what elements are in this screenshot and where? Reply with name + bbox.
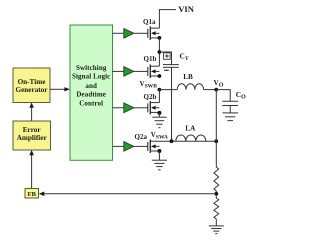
wire VO rail down to resistor R1 (215, 90, 217, 167)
svg-text:VIN: VIN (178, 4, 195, 14)
wire On-Time Generator to logic block (50, 88, 65, 90)
svg-text:Control: Control (79, 99, 103, 107)
resistor R1 (214, 167, 219, 191)
svg-text:and: and (85, 82, 97, 90)
svg-text:CT: CT (180, 51, 189, 62)
transistor Q1a (148, 26, 160, 40)
wire FB box up to Error Amplifier (31, 155, 33, 189)
node junction dot Q1a source (158, 36, 162, 40)
wire FB feedback line (44, 193, 216, 195)
svg-text:Q2b: Q2b (144, 93, 157, 101)
svg-text:LA: LA (185, 125, 196, 133)
buffer driver A1 (113, 32, 124, 34)
wire VSWB to inductor LB (159, 89, 177, 91)
buffer driver A2 (113, 70, 124, 72)
svg-text:Deadtime: Deadtime (76, 91, 106, 99)
node junction dot LA right (214, 139, 218, 143)
svg-text:VSWA: VSWA (151, 131, 168, 141)
svg-text:Switching: Switching (76, 64, 107, 72)
buffer driver A4 (113, 145, 124, 147)
buffer driver A3 (113, 107, 124, 109)
wire Q2a source to ground (158, 151, 160, 160)
wire driver A1 to gate (134, 32, 148, 34)
node junction dot CT tap (158, 50, 162, 54)
node VO junction dot (214, 88, 218, 92)
block On-Time Generator (13, 68, 50, 103)
block FB pin (25, 189, 39, 199)
transistor Q2a (148, 140, 160, 154)
capacitor CT (159, 52, 178, 141)
node junction dot Q2a source (157, 149, 161, 153)
wire R2 to ground (215, 219, 217, 226)
svg-text:Q2a: Q2a (135, 133, 148, 141)
block Switching Signal Logic and Deadtime Control (70, 25, 113, 160)
block Error Amplifier (13, 121, 51, 150)
inductor LB (177, 84, 203, 90)
svg-text:VO: VO (214, 79, 224, 89)
node junction dot Q1b source (158, 74, 162, 78)
svg-text:Amplifier: Amplifier (17, 134, 48, 142)
polarity minus of CT (164, 69, 169, 71)
node junction dot CT to VSWA (170, 139, 174, 143)
svg-text:Error: Error (23, 126, 42, 134)
ground below Q2a (152, 160, 167, 170)
svg-text:VSWB: VSWB (140, 80, 158, 90)
resistor R2 (214, 198, 219, 219)
svg-text:Generator: Generator (16, 86, 49, 94)
ground below R2 (209, 226, 224, 234)
wire driver A4 to gate (134, 145, 148, 147)
wire Q2b drain to VSWB (158, 90, 160, 103)
wire R1 to FB tap (215, 191, 217, 198)
transistor Q1b (148, 65, 160, 79)
svg-text:LB: LB (183, 73, 193, 81)
node junction dot FB tap (214, 192, 218, 196)
svg-text:Signal Logic: Signal Logic (72, 72, 110, 80)
svg-text:Q1b: Q1b (144, 55, 157, 63)
wire LB to node VO (204, 89, 217, 91)
wire Error Amplifier up to On-Time Generator (31, 108, 33, 121)
wire VO to capacitor CO (216, 90, 230, 102)
svg-text:FB: FB (27, 191, 36, 198)
node junction dot VSWB (158, 88, 162, 92)
wire Q1a source to Q1b drain (158, 38, 160, 66)
capacitor CO (222, 101, 238, 113)
polarity plus box of CT (164, 53, 171, 60)
svg-text:Q1a: Q1a (143, 18, 156, 26)
ground below Q2b (152, 117, 166, 128)
inductor LA (176, 135, 206, 141)
net VIN wire (159, 10, 176, 29)
wire driver A3 to gate (134, 107, 148, 109)
wire Q2b source to ground (158, 113, 160, 117)
wire driver A2 to gate (134, 70, 148, 72)
node junction dot Q2b source (157, 111, 161, 115)
wire Q2a drain / node VSWA line to right rail (159, 140, 216, 142)
svg-text:CO: CO (236, 90, 246, 101)
ground below CO (222, 113, 238, 121)
transistor Q2b (148, 101, 160, 115)
